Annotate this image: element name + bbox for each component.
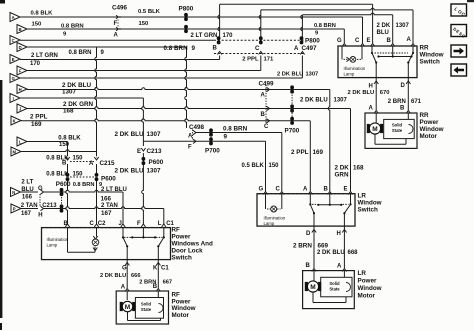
svg-text:A: A: [369, 106, 374, 112]
svg-text:150: 150: [32, 22, 43, 28]
RF switch lever left: [123, 237, 128, 259]
svg-text:Solid: Solid: [141, 302, 152, 307]
connector triangle A (left edge, row y=17): [10, 13, 20, 22]
svg-text:Solid: Solid: [392, 123, 403, 128]
scan border artifact top-right: [467, 0, 474, 2]
svg-text:RF: RF: [172, 227, 181, 234]
svg-text:166: 166: [22, 195, 33, 201]
svg-text:E: E: [367, 38, 371, 44]
wire vertical 0.8 BRN 9 branch to C498 pin A: [185, 47, 187, 128]
svg-text:Window: Window: [420, 126, 444, 133]
svg-text:H: H: [38, 213, 42, 219]
svg-text:State: State: [329, 286, 340, 291]
wire row K (2 PPL 169) to LR switch pin A: [21, 119, 313, 194]
svg-text:150: 150: [59, 142, 70, 148]
svg-text:2 DK BLU: 2 DK BLU: [115, 168, 144, 175]
svg-text:1307: 1307: [147, 168, 162, 175]
svg-text:2 PPL: 2 PPL: [30, 114, 48, 121]
connector triangle K (left edge, row y=120.5): [11, 116, 21, 125]
svg-text:G: G: [122, 266, 127, 272]
wire row H (2 DK BLU 1307) to LR switch pin B: [27, 88, 332, 195]
grommet P600 row O: [60, 204, 64, 208]
svg-text:2 PPL: 2 PPL: [242, 56, 259, 62]
wire RR switch pin H to motor pin A (2 DK BLU 670): [374, 78, 378, 114]
RR Window Switch box: [338, 46, 417, 78]
svg-text:168: 168: [353, 165, 364, 172]
svg-text:P600: P600: [101, 176, 116, 183]
svg-text:G: G: [259, 187, 264, 193]
svg-text:P600: P600: [149, 159, 164, 166]
connector triangle L (left edge, row y=141.5): [17, 137, 27, 146]
svg-text:Door Lock: Door Lock: [172, 248, 204, 255]
svg-text:1307: 1307: [62, 89, 77, 96]
svg-text:State: State: [392, 128, 403, 133]
connector triangle B (left edge, row y=29): [17, 25, 27, 34]
connector triangle M (left edge, row y=151.5): [11, 147, 21, 156]
svg-text:P800: P800: [179, 6, 194, 13]
svg-text:B: B: [64, 221, 69, 227]
svg-text:2 DK BLU: 2 DK BLU: [100, 273, 126, 279]
LR switch illumination lamp: [266, 194, 282, 212]
svg-text:C213: C213: [42, 203, 57, 209]
svg-text:BLU: BLU: [21, 187, 33, 193]
svg-text:LR: LR: [358, 270, 367, 277]
grommet P700 dashed link (x211): [210, 135, 212, 140]
svg-text:H: H: [19, 87, 22, 92]
connector triangle G (left edge, row y=78): [10, 74, 20, 83]
svg-text:Power: Power: [172, 234, 191, 241]
svg-text:668: 668: [348, 250, 359, 256]
grommet P700 row K: [290, 117, 294, 121]
svg-text:C213: C213: [147, 148, 163, 155]
wire row G to C497 pin A: [20, 56, 302, 79]
svg-text:Illumination: Illumination: [264, 216, 286, 221]
svg-text:M: M: [372, 126, 377, 133]
svg-text:9: 9: [192, 45, 196, 52]
svg-text:Motor: Motor: [358, 293, 376, 300]
svg-text:M: M: [12, 149, 16, 154]
RR motor inner solid state box: [384, 119, 415, 138]
svg-text:1307: 1307: [396, 23, 410, 29]
connector C213 left dashed link: [39, 194, 41, 207]
connector triangle J (left edge, row y=108.5): [17, 104, 27, 113]
svg-text:B: B: [62, 161, 67, 167]
svg-text:2 LT GRN: 2 LT GRN: [31, 53, 58, 59]
LR motor solid state arc: [346, 283, 351, 292]
connector C497/P800 pin ovals: [217, 36, 304, 44]
svg-text:2 LT: 2 LT: [21, 180, 33, 186]
svg-text:C1: C1: [166, 221, 174, 227]
svg-text:State: State: [141, 307, 152, 312]
svg-text:D: D: [19, 45, 22, 50]
svg-text:Window: Window: [358, 285, 382, 292]
svg-text:2 DK BLU: 2 DK BLU: [317, 250, 345, 256]
svg-text:9: 9: [224, 134, 228, 141]
wire 0.8 BRN 9 from C498 pin A to LR switch pin C: [193, 130, 284, 194]
connector C215 pin B arrow: [65, 155, 69, 160]
RR motor M symbol: [367, 123, 383, 134]
wire row D (0.8 BRN 9) horizontal with branches: [27, 46, 187, 48]
svg-text:0.8 BRN: 0.8 BRN: [223, 126, 248, 133]
RF motor solid state arc: [159, 304, 164, 313]
wire branch (0.5 BLK 150) from x143.4 to LR switch pin G: [143, 141, 267, 194]
svg-text:9: 9: [315, 31, 318, 37]
grommet P600 (x143.4): [142, 157, 146, 161]
grommet P600 dashed link (y177): [70, 176, 94, 178]
wire row E to C497 pin B: [20, 56, 220, 60]
svg-text:B: B: [400, 106, 405, 112]
wire LR switch pin D to motor pin B (2 BRN 669): [312, 226, 316, 271]
grommet P800 on rows A and B: [184, 13, 188, 33]
scan border artifact top-left: [0, 0, 5, 4]
grommet P600 dashed link (x61.5): [61, 195, 63, 207]
svg-text:C: C: [264, 124, 269, 130]
svg-text:0.8 BRN: 0.8 BRN: [164, 45, 189, 52]
svg-text:F: F: [188, 145, 192, 151]
icon box DESC: [451, 25, 467, 39]
connector C498 pin F arrow: [188, 139, 196, 150]
svg-text:Power: Power: [420, 119, 439, 126]
grommet P600 (x67.5): [66, 173, 70, 177]
svg-text:E: E: [12, 57, 15, 62]
scan border artifact left edge bar: [0, 80, 2, 318]
LR motor inner solid state box: [321, 277, 352, 297]
svg-text:A: A: [294, 46, 299, 52]
svg-text:M: M: [310, 284, 315, 291]
svg-text:Switch: Switch: [358, 207, 378, 214]
grommet P600 row N: [60, 188, 64, 192]
svg-text:2 TAN: 2 TAN: [101, 203, 118, 209]
svg-text:C: C: [90, 221, 95, 227]
wire row I down at x143.4 to RF switch pin F: [20, 98, 146, 227]
svg-text:150: 150: [269, 163, 280, 169]
icon box LOC: [451, 4, 467, 18]
RF switch contact bar: [122, 228, 165, 239]
svg-text:F: F: [19, 68, 22, 73]
svg-text:0.8 BRN: 0.8 BRN: [69, 50, 92, 56]
svg-text:C497: C497: [302, 45, 318, 52]
svg-text:A: A: [121, 284, 126, 290]
RR motor solid state arc: [409, 125, 414, 134]
svg-text:C496: C496: [112, 5, 128, 12]
LR switch contacts: [309, 194, 351, 226]
wire RF switch pin G to motor pin A (2 DK BLU 666): [125, 260, 129, 292]
svg-text:A: A: [303, 187, 308, 193]
LR Power Window Motor box: [303, 271, 355, 309]
svg-text:RR: RR: [420, 45, 430, 52]
connector C497 lower dashed line with pin arrows: [214, 52, 305, 55]
svg-text:169: 169: [31, 121, 42, 128]
RF motor inner solid state box: [135, 298, 163, 319]
svg-text:RR: RR: [420, 112, 430, 119]
svg-text:C: C: [355, 38, 360, 44]
svg-text:167: 167: [101, 210, 112, 217]
RR switch contacts: [371, 46, 414, 78]
svg-text:2 TAN: 2 TAN: [21, 203, 38, 209]
wire row J (2 DK GRN 168) to LR switch pin E: [27, 107, 353, 195]
svg-text:167: 167: [21, 211, 32, 217]
svg-text:E: E: [344, 187, 348, 193]
svg-text:Illumination: Illumination: [344, 66, 366, 71]
svg-text:A: A: [12, 15, 15, 20]
svg-text:B: B: [387, 38, 392, 44]
svg-text:0.8 BRN: 0.8 BRN: [314, 23, 336, 29]
wire row A (0.8 BLK 150) to RR switch pin C: [20, 17, 365, 47]
svg-text:1307: 1307: [334, 97, 348, 103]
RF motor M symbol: [120, 301, 136, 311]
svg-text:G: G: [38, 186, 43, 192]
wire row M to x96.5 junction: [21, 150, 97, 152]
svg-text:Motor: Motor: [420, 133, 438, 140]
svg-text:K: K: [13, 118, 16, 123]
svg-text:2 DK BLU: 2 DK BLU: [277, 72, 303, 78]
svg-text:A: A: [337, 264, 342, 270]
connector triangle F (left edge, row y=70.5): [17, 66, 27, 75]
grommet P700 on branch (y141.3): [209, 137, 213, 141]
svg-text:L: L: [158, 221, 162, 227]
RF switch lever right: [157, 237, 164, 259]
svg-text:L: L: [19, 139, 22, 144]
svg-text:Window: Window: [358, 200, 382, 207]
svg-text:Lamp: Lamp: [264, 221, 275, 226]
wire row L (0.8 BLK 150) to RF switch pin B: [27, 142, 70, 228]
svg-text:K: K: [153, 266, 158, 272]
grommet P700 dashed link (x292): [291, 92, 293, 118]
svg-text:B: B: [153, 284, 158, 290]
LR motor M symbol: [305, 281, 321, 292]
svg-text:M: M: [125, 304, 130, 311]
svg-text:150: 150: [73, 156, 84, 162]
svg-text:2 DK BLU: 2 DK BLU: [300, 97, 328, 103]
connector C213 pin E arrow (x143.4): [141, 148, 145, 151]
svg-text:D: D: [401, 83, 406, 89]
svg-text:P800: P800: [305, 38, 320, 45]
svg-text:J: J: [119, 221, 122, 227]
svg-text:2 DK: 2 DK: [335, 165, 350, 172]
svg-text:2 LT BLU: 2 LT BLU: [101, 187, 127, 193]
connector triangle H (left edge, row y=89): [17, 85, 27, 94]
svg-text:C2: C2: [98, 221, 106, 227]
wire LR switch pin H to motor pin A (2 DK BLU 668): [342, 226, 346, 271]
svg-text:0.8 BLK: 0.8 BLK: [31, 11, 54, 17]
svg-text:170: 170: [223, 33, 234, 39]
svg-text:A: A: [89, 161, 94, 167]
svg-text:C1: C1: [161, 266, 169, 272]
svg-text:A: A: [407, 37, 412, 43]
svg-text:Switch: Switch: [420, 59, 440, 66]
svg-text:C498: C498: [189, 124, 205, 131]
svg-text:Window: Window: [420, 52, 444, 59]
wire riser 2 DK BLU 1307 (C497-A up and over to RR switch pin B): [301, 13, 395, 46]
svg-text:H: H: [369, 84, 373, 90]
svg-text:G: G: [12, 76, 15, 81]
grommet P700 row H: [290, 85, 294, 89]
grommet P700 row J: [290, 104, 294, 108]
svg-text:150: 150: [139, 21, 150, 27]
svg-text:169: 169: [313, 149, 324, 156]
svg-text:171: 171: [264, 56, 275, 62]
svg-text:F: F: [137, 221, 141, 227]
connector C499 dashed line and pin arrows: [266, 85, 270, 124]
svg-text:9: 9: [63, 32, 67, 38]
connector triangle D (left edge, row y=47): [17, 43, 27, 52]
LR motor internal wires: [313, 271, 346, 303]
svg-text:Solid: Solid: [329, 281, 340, 286]
svg-text:C215: C215: [100, 160, 116, 167]
svg-text:9: 9: [101, 50, 105, 56]
svg-text:C499: C499: [259, 80, 275, 87]
svg-text:2 LT GRN: 2 LT GRN: [191, 33, 218, 39]
svg-text:671: 671: [411, 99, 422, 105]
svg-text:1307: 1307: [306, 72, 319, 78]
svg-text:B: B: [213, 46, 218, 52]
connector triangle E (left edge, row y=59): [10, 55, 20, 64]
LR Window Switch box: [257, 194, 355, 226]
svg-text:0.8 BLK: 0.8 BLK: [46, 171, 69, 177]
svg-text:I: I: [13, 96, 14, 101]
wire row C to C497 pin row: [20, 39, 305, 41]
svg-text:C: C: [255, 46, 260, 52]
svg-text:Lamp: Lamp: [47, 243, 58, 248]
icon box left arrow: [451, 64, 467, 76]
connector triangle I (left edge, row y=98): [10, 94, 20, 103]
wire RR switch pin D to motor pin B (2 BRN 671): [406, 78, 410, 114]
svg-text:B: B: [261, 112, 266, 118]
svg-text:H: H: [337, 231, 341, 237]
svg-text:670: 670: [380, 90, 390, 96]
svg-text:666: 666: [131, 273, 141, 279]
svg-text:0.5 BLK: 0.5 BLK: [242, 163, 265, 169]
svg-text:B: B: [19, 27, 22, 32]
svg-text:Motor: Motor: [172, 312, 190, 319]
wire vertical 0.8 BRN 9 branch to RF switch pin C: [94, 47, 98, 227]
wire riser 2 LT GRN 170 (C497-B up and over to RR switch pin E): [218, 4, 375, 46]
RR switch illumination lamp: [342, 46, 362, 62]
RF Power Windows And Door Lock Switch box: [42, 228, 171, 260]
svg-text:0.5 BLK: 0.5 BLK: [138, 9, 161, 15]
svg-text:Switch: Switch: [172, 255, 192, 262]
svg-text:0.8 BLK: 0.8 BLK: [58, 136, 81, 142]
svg-text:B: B: [324, 187, 329, 193]
grommet P600 on branch x96.5: [95, 173, 99, 177]
connector C215 dashed link: [70, 161, 94, 163]
svg-text:P600: P600: [56, 181, 71, 188]
svg-text:Power: Power: [358, 278, 377, 285]
svg-text:170: 170: [30, 61, 41, 67]
svg-text:C: C: [12, 38, 15, 43]
svg-text:Illumination: Illumination: [47, 237, 69, 242]
connector C496 symbols on rows A and B: [116, 15, 121, 31]
svg-text:E: E: [137, 149, 141, 155]
svg-text:F: F: [114, 21, 118, 27]
svg-text:P700: P700: [285, 128, 300, 135]
svg-text:C: C: [276, 187, 281, 193]
wire riser 2 PPL 171 (C497-C up and over to RR switch pin A): [259, 8, 415, 46]
svg-text:BLU: BLU: [377, 30, 389, 36]
connector triangle N (left edge, row y=192): [11, 188, 21, 197]
svg-text:2 DK BLU: 2 DK BLU: [115, 131, 144, 138]
svg-text:166: 166: [101, 196, 112, 203]
scan border artifact bottom-left nub: [0, 323, 2, 330]
svg-text:D: D: [306, 231, 311, 237]
connector C215 pin A arrow: [94, 155, 98, 160]
wire row N (2 LT BLU 166) to RF switch pin J: [21, 190, 126, 227]
wire RF switch pin K to motor pin B (2 BRN 667): [156, 260, 160, 292]
svg-text:A: A: [114, 33, 119, 39]
connector triangle C (left edge, row y=40): [10, 36, 20, 45]
svg-text:P: P: [13, 206, 16, 211]
svg-text:168: 168: [63, 108, 74, 115]
grommet P700 on C498-A wire: [209, 128, 213, 132]
wire row O (2 TAN 167) to RF switch pin L: [21, 206, 166, 227]
wire row B (0.8 BRN 9) to RR switch pin G: [27, 29, 347, 47]
svg-text:0.8 BRN: 0.8 BRN: [61, 24, 84, 30]
svg-text:G: G: [337, 38, 342, 44]
connector C498 dashed link: [192, 130, 194, 141]
label P800 (C497 area): [305, 38, 320, 45]
svg-text:1307: 1307: [147, 131, 162, 138]
svg-text:2 BRN: 2 BRN: [388, 99, 406, 105]
RF switch illumination lamp: [68, 228, 99, 253]
svg-text:2 BRN: 2 BRN: [293, 243, 312, 250]
svg-text:0.8 BRN: 0.8 BRN: [73, 182, 95, 188]
svg-text:Lamp: Lamp: [344, 72, 355, 77]
svg-text:2 DK BLU: 2 DK BLU: [348, 90, 375, 96]
RF motor internal wires: [127, 291, 160, 321]
svg-text:P700: P700: [205, 148, 220, 155]
connector triangle P (left edge, row y=208.5): [11, 204, 21, 213]
svg-text:2 DK: 2 DK: [377, 23, 391, 29]
svg-text:B: B: [306, 263, 311, 269]
svg-text:Windows And: Windows And: [172, 241, 213, 248]
svg-text:667: 667: [163, 279, 173, 285]
RR motor internal wires: [375, 113, 408, 144]
svg-text:N: N: [12, 190, 15, 195]
icon box right arrow: [451, 45, 467, 57]
svg-text:2 PPL: 2 PPL: [291, 149, 309, 156]
svg-text:LR: LR: [358, 193, 367, 200]
svg-text:669: 669: [318, 243, 329, 250]
svg-text:GRN: GRN: [335, 172, 349, 179]
RF Power Window Motor box: [116, 291, 168, 324]
svg-text:A: A: [261, 93, 266, 99]
wire row F to C497 pin C: [27, 56, 261, 71]
RR Power Window Motor box: [365, 113, 417, 148]
